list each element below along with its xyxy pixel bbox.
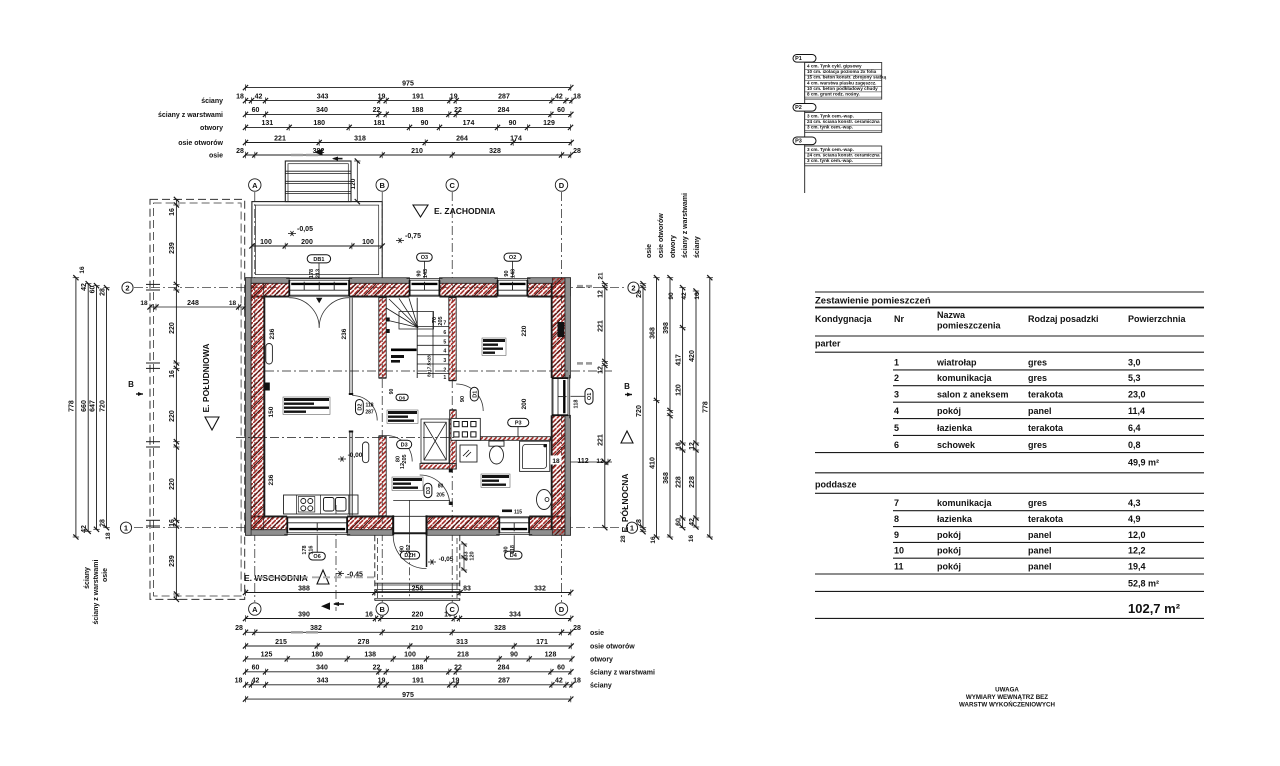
svg-text:16: 16 <box>675 442 682 450</box>
svg-text:parter: parter <box>815 339 841 349</box>
svg-text:28: 28 <box>573 625 581 632</box>
svg-text:B: B <box>379 181 385 190</box>
svg-text:239: 239 <box>169 555 176 567</box>
svg-text:284: 284 <box>498 665 510 672</box>
svg-text:WYMIARY WEWNĄTRZ BEZ: WYMIARY WEWNĄTRZ BEZ <box>966 694 1048 701</box>
svg-text:11,4: 11,4 <box>1128 406 1145 416</box>
svg-text:3,0: 3,0 <box>1128 357 1141 367</box>
svg-text:248: 248 <box>187 300 199 307</box>
svg-text:O2: O2 <box>509 255 516 261</box>
window/door pill labels <box>302 253 593 560</box>
svg-text:975: 975 <box>402 692 414 699</box>
svg-text:6: 6 <box>443 330 446 336</box>
svg-text:90: 90 <box>504 546 510 552</box>
svg-text:120: 120 <box>675 384 682 396</box>
svg-text:2: 2 <box>894 373 899 383</box>
svg-text:120: 120 <box>470 551 476 560</box>
svg-text:-0,05: -0,05 <box>297 226 313 233</box>
svg-text:P3: P3 <box>515 421 522 427</box>
svg-text:9: 9 <box>894 530 899 540</box>
left terrace dashed outline <box>140 197 247 602</box>
svg-text:205: 205 <box>436 493 445 499</box>
svg-text:C: C <box>449 181 455 190</box>
svg-text:6,4: 6,4 <box>1128 423 1141 433</box>
svg-text:90: 90 <box>460 396 466 402</box>
svg-text:komunikacja: komunikacja <box>937 373 993 383</box>
svg-text:10: 10 <box>894 546 904 556</box>
svg-text:660: 660 <box>81 400 88 412</box>
svg-text:19: 19 <box>452 678 460 685</box>
svg-text:D6: D6 <box>399 395 405 401</box>
svg-text:ściany: ściany <box>590 682 612 689</box>
svg-text:terakota: terakota <box>1028 390 1064 400</box>
svg-text:4: 4 <box>894 406 899 416</box>
svg-text:180: 180 <box>311 652 323 659</box>
schowek storage box <box>421 419 449 463</box>
svg-text:42: 42 <box>689 518 696 526</box>
svg-text:E. PÓŁNOCNA: E. PÓŁNOCNA <box>619 473 630 532</box>
svg-text:18: 18 <box>140 300 148 307</box>
svg-text:210: 210 <box>411 148 423 155</box>
svg-text:WARSTW WYKOŃCZENIOWYCH: WARSTW WYKOŃCZENIOWYCH <box>959 700 1055 708</box>
svg-text:E. ZACHODNIA: E. ZACHODNIA <box>434 206 495 216</box>
svg-text:4 cm. Tynk cykl. gipsowy: 4 cm. Tynk cykl. gipsowy <box>807 64 862 69</box>
svg-text:Nazwa: Nazwa <box>937 310 966 320</box>
svg-text:174: 174 <box>510 135 522 142</box>
svg-text:28: 28 <box>620 535 627 543</box>
svg-text:90: 90 <box>510 652 518 659</box>
svg-text:osie otworów: osie otworów <box>658 213 665 258</box>
svg-text:131: 131 <box>261 120 273 127</box>
svg-text:328: 328 <box>494 625 506 632</box>
svg-text:42: 42 <box>681 292 688 300</box>
svg-text:60: 60 <box>557 107 565 114</box>
svg-text:salon z aneksem: salon z aneksem <box>937 390 1009 400</box>
svg-text:398: 398 <box>663 322 670 334</box>
washbasin <box>537 490 552 510</box>
svg-text:-0,75: -0,75 <box>405 233 421 240</box>
svg-text:osie otworów: osie otworów <box>590 644 635 651</box>
svg-text:220: 220 <box>169 322 176 334</box>
balcony door DB1 swing arcs <box>289 298 319 328</box>
svg-text:221: 221 <box>598 320 605 332</box>
svg-text:125: 125 <box>261 652 273 659</box>
svg-text:12: 12 <box>598 366 605 374</box>
svg-text:P2: P2 <box>795 105 802 111</box>
svg-text:Nr: Nr <box>894 314 904 324</box>
svg-text:388: 388 <box>298 585 310 592</box>
svg-text:143: 143 <box>511 269 517 278</box>
svg-text:18: 18 <box>105 532 112 540</box>
svg-text:Powierzchnia: Powierzchnia <box>1128 314 1187 324</box>
svg-text:gres: gres <box>1028 373 1047 383</box>
svg-text:łazienka: łazienka <box>937 423 973 433</box>
svg-text:19: 19 <box>450 93 458 100</box>
svg-text:D: D <box>559 181 565 190</box>
bottom dimension block <box>235 585 655 702</box>
svg-text:28: 28 <box>235 625 243 632</box>
svg-text:80: 80 <box>438 484 444 490</box>
svg-text:90: 90 <box>509 120 517 127</box>
svg-text:83: 83 <box>463 585 471 592</box>
svg-text:128: 128 <box>545 652 557 659</box>
svg-text:220: 220 <box>169 478 176 490</box>
svg-text:49,9 m²: 49,9 m² <box>1128 458 1159 468</box>
svg-text:gres: gres <box>1028 440 1047 450</box>
svg-text:112: 112 <box>577 458 588 465</box>
svg-text:D2: D2 <box>357 404 363 411</box>
svg-text:16: 16 <box>169 519 176 527</box>
legend P1 P2 P3 <box>793 55 887 194</box>
svg-text:213: 213 <box>316 269 322 278</box>
radiators <box>266 344 273 365</box>
washing machine <box>460 445 477 462</box>
svg-text:19: 19 <box>378 678 386 685</box>
stairs <box>386 298 449 381</box>
svg-text:7: 7 <box>894 498 899 508</box>
svg-text:343: 343 <box>317 93 329 100</box>
west balcony / porch with steps <box>249 158 421 278</box>
svg-text:3: 3 <box>894 390 899 400</box>
svg-text:19: 19 <box>378 93 386 100</box>
svg-text:1: 1 <box>124 523 128 532</box>
svg-text:pokój: pokój <box>937 562 961 572</box>
svg-text:178: 178 <box>309 269 315 278</box>
svg-text:102,7 m²: 102,7 m² <box>1128 601 1181 616</box>
svg-text:28: 28 <box>236 148 244 155</box>
svg-text:E. POŁUDNIOWA: E. POŁUDNIOWA <box>201 344 211 413</box>
svg-text:16: 16 <box>650 536 657 544</box>
svg-text:A: A <box>252 181 258 190</box>
svg-text:60: 60 <box>675 518 682 526</box>
svg-text:ściany: ściany <box>694 236 701 258</box>
svg-text:osie: osie <box>646 244 653 258</box>
svg-text:21: 21 <box>597 272 604 280</box>
svg-text:210: 210 <box>411 625 423 632</box>
svg-text:panel: panel <box>1028 530 1052 540</box>
svg-text:115: 115 <box>514 510 522 516</box>
svg-text:komunikacja: komunikacja <box>937 498 993 508</box>
svg-text:191: 191 <box>412 678 424 685</box>
svg-text:ściany: ściany <box>84 567 91 589</box>
grid axes A-D, 1-2 <box>120 179 639 615</box>
svg-text:3: 3 <box>443 358 446 364</box>
svg-text:schowek: schowek <box>937 440 976 450</box>
shower <box>520 441 550 471</box>
svg-text:205: 205 <box>402 454 408 463</box>
svg-text:12: 12 <box>689 442 696 450</box>
svg-text:P3: P3 <box>795 139 802 145</box>
svg-text:647: 647 <box>89 400 96 412</box>
svg-text:171: 171 <box>536 639 548 646</box>
svg-text:wiatrołap: wiatrołap <box>936 357 977 367</box>
svg-text:90: 90 <box>417 270 423 276</box>
svg-text:E. WSCHODNIA: E. WSCHODNIA <box>244 573 308 583</box>
svg-text:B: B <box>128 380 134 389</box>
svg-text:osie: osie <box>590 630 604 637</box>
room labels (blurred text bars) <box>283 397 330 414</box>
svg-text:3 cm. tynk cem.-wap.: 3 cm. tynk cem.-wap. <box>807 158 853 163</box>
svg-text:60: 60 <box>252 665 260 672</box>
svg-text:28: 28 <box>573 148 581 155</box>
svg-text:228: 228 <box>689 476 696 488</box>
svg-text:ściany z warstwami: ściany z warstwami <box>93 559 100 624</box>
svg-text:Zestawienie pomieszczeń: Zestawienie pomieszczeń <box>815 296 931 307</box>
svg-text:420: 420 <box>689 350 696 362</box>
svg-text:188: 188 <box>412 107 424 114</box>
svg-text:15 cm. beton konstr. zbrojony: 15 cm. beton konstr. zbrojony siatką <box>807 75 887 80</box>
svg-text:12: 12 <box>598 290 605 298</box>
svg-text:22: 22 <box>373 665 381 672</box>
svg-text:221: 221 <box>274 135 286 142</box>
svg-text:poddasze: poddasze <box>815 480 857 490</box>
svg-text:18: 18 <box>552 458 560 465</box>
svg-text:778: 778 <box>69 400 76 412</box>
interior door arcs <box>456 384 483 411</box>
interior rotated dims <box>268 316 612 485</box>
svg-text:218: 218 <box>457 652 469 659</box>
svg-text:42: 42 <box>255 93 263 100</box>
svg-text:łazienka: łazienka <box>937 514 973 524</box>
svg-text:1: 1 <box>630 523 634 532</box>
svg-text:118: 118 <box>510 545 516 554</box>
svg-text:12,0: 12,0 <box>1128 530 1146 540</box>
svg-text:390: 390 <box>298 611 310 618</box>
svg-text:otwory: otwory <box>200 125 223 132</box>
svg-text:42: 42 <box>81 283 88 291</box>
svg-text:ściany z warstwami: ściany z warstwami <box>158 112 223 119</box>
svg-text:287: 287 <box>498 93 510 100</box>
rooms table Zestawienie pomieszczen <box>815 292 1204 618</box>
svg-text:B: B <box>379 605 385 614</box>
svg-text:340: 340 <box>316 665 328 672</box>
svg-text:16: 16 <box>688 535 695 543</box>
svg-text:panel: panel <box>1028 562 1052 572</box>
svg-text:Rodzaj posadzki: Rodzaj posadzki <box>1028 314 1099 324</box>
svg-text:239: 239 <box>169 242 176 254</box>
svg-text:720: 720 <box>636 405 643 417</box>
svg-text:4: 4 <box>443 349 446 355</box>
svg-text:138: 138 <box>364 652 376 659</box>
svg-text:52,8 m²: 52,8 m² <box>1128 579 1159 589</box>
svg-text:3 cm. Tynk cem.-wap.: 3 cm. Tynk cem.-wap. <box>807 114 854 119</box>
svg-text:60: 60 <box>557 665 565 672</box>
svg-text:236: 236 <box>341 328 348 339</box>
svg-text:D1: D1 <box>472 391 478 398</box>
svg-text:220: 220 <box>521 325 528 336</box>
svg-text:18: 18 <box>573 678 581 685</box>
svg-text:318: 318 <box>354 135 366 142</box>
entrance door DZH <box>392 515 427 568</box>
svg-text:200: 200 <box>301 239 313 246</box>
svg-text:90: 90 <box>400 546 406 552</box>
svg-text:42: 42 <box>555 93 563 100</box>
svg-text:4,9: 4,9 <box>1128 514 1141 524</box>
svg-text:100: 100 <box>404 652 416 659</box>
svg-text:22: 22 <box>454 665 462 672</box>
svg-text:pomieszczenia: pomieszczenia <box>937 321 1002 331</box>
svg-text:24 cm. ściana konstr. ceramicz: 24 cm. ściana konstr. ceramiczna <box>807 153 880 158</box>
svg-text:28: 28 <box>99 288 106 296</box>
svg-text:220: 220 <box>169 410 176 422</box>
svg-text:340: 340 <box>316 107 328 114</box>
svg-text:P1: P1 <box>795 56 802 62</box>
svg-text:pokój: pokój <box>937 406 961 416</box>
svg-text:osie otworów: osie otworów <box>178 140 223 147</box>
svg-text:90: 90 <box>668 292 675 300</box>
svg-text:terakota: terakota <box>1028 423 1064 433</box>
svg-text:16: 16 <box>365 611 373 618</box>
svg-text:191: 191 <box>412 93 424 100</box>
svg-text:terakota: terakota <box>1028 514 1064 524</box>
toilet <box>489 441 504 464</box>
svg-text:90: 90 <box>389 389 395 395</box>
svg-text:8: 8 <box>894 514 899 524</box>
svg-text:gres: gres <box>1028 357 1047 367</box>
svg-text:284: 284 <box>498 107 510 114</box>
svg-text:8x17,5x28: 8x17,5x28 <box>427 355 432 377</box>
svg-text:287: 287 <box>498 678 510 685</box>
svg-text:16: 16 <box>169 208 176 216</box>
svg-text:129: 129 <box>543 120 555 127</box>
top dimension block <box>158 80 581 160</box>
svg-text:264: 264 <box>456 135 468 142</box>
dining table with chairs <box>451 418 480 440</box>
svg-text:pokój: pokój <box>937 546 961 556</box>
svg-text:osie: osie <box>209 153 223 160</box>
svg-text:O1: O1 <box>587 393 593 400</box>
svg-text:3 cm. Tynk cem.-wap.: 3 cm. Tynk cem.-wap. <box>807 147 854 152</box>
svg-text:180: 180 <box>313 120 325 127</box>
svg-text:188: 188 <box>412 665 424 672</box>
svg-text:4 cm. warstwa piasku zagęszcz.: 4 cm. warstwa piasku zagęszcz. <box>807 80 876 85</box>
right dimension block <box>597 193 713 544</box>
svg-text:ściany z warstwami: ściany z warstwami <box>590 669 655 676</box>
svg-text:2: 2 <box>631 283 635 292</box>
svg-text:100: 100 <box>260 239 272 246</box>
svg-text:215: 215 <box>275 639 287 646</box>
svg-text:417: 417 <box>675 354 682 366</box>
svg-text:205: 205 <box>438 316 444 325</box>
svg-text:4,3: 4,3 <box>1128 498 1141 508</box>
svg-text:0,8: 0,8 <box>1128 440 1141 450</box>
svg-text:118: 118 <box>574 400 580 409</box>
svg-text:DB1: DB1 <box>313 257 324 263</box>
svg-text:228: 228 <box>675 476 682 488</box>
svg-text:24 cm. ściana konstr. ceramicz: 24 cm. ściana konstr. ceramiczna <box>807 119 880 124</box>
windows on top wall <box>284 279 532 535</box>
svg-text:332: 332 <box>534 585 546 592</box>
svg-text:16: 16 <box>694 292 701 300</box>
svg-text:334: 334 <box>509 611 521 618</box>
svg-text:8 cm. grunt rodz. nośny.: 8 cm. grunt rodz. nośny. <box>807 92 860 97</box>
svg-text:118: 118 <box>365 403 373 409</box>
svg-text:10 cm. izolacja pozioma 2x fol: 10 cm. izolacja pozioma 2x folia <box>807 69 877 74</box>
svg-text:ściany z warstwami: ściany z warstwami <box>682 193 689 258</box>
svg-text:174: 174 <box>463 120 475 127</box>
svg-text:6: 6 <box>894 440 899 450</box>
svg-text:410: 410 <box>649 457 656 469</box>
svg-text:343: 343 <box>317 678 329 685</box>
svg-text:368: 368 <box>663 472 670 484</box>
svg-text:C: C <box>449 605 455 614</box>
svg-text:panel: panel <box>1028 546 1052 556</box>
kitchen counter with stove and sink <box>284 495 359 514</box>
svg-text:D3: D3 <box>401 442 408 448</box>
svg-text:28: 28 <box>99 519 106 527</box>
svg-text:pokój: pokój <box>937 530 961 540</box>
svg-text:11: 11 <box>894 562 904 572</box>
svg-text:1: 1 <box>443 375 446 381</box>
svg-text:16: 16 <box>79 266 86 274</box>
svg-text:1: 1 <box>894 357 899 367</box>
svg-text:778: 778 <box>703 401 710 413</box>
entrance porch bottom <box>375 500 476 601</box>
svg-text:287: 287 <box>365 410 374 416</box>
svg-text:313: 313 <box>456 639 468 646</box>
svg-text:42: 42 <box>81 525 88 533</box>
svg-text:5: 5 <box>894 423 899 433</box>
interior walls <box>349 298 551 516</box>
svg-text:90: 90 <box>504 270 510 276</box>
chimney flue in right wall <box>558 322 565 337</box>
svg-text:221: 221 <box>598 434 605 446</box>
svg-text:10 cm. beton podkładowy chudy: 10 cm. beton podkładowy chudy <box>807 86 878 91</box>
svg-text:150: 150 <box>268 406 275 417</box>
svg-text:23,0: 23,0 <box>1128 390 1146 400</box>
svg-text:382: 382 <box>310 625 322 632</box>
svg-text:200: 200 <box>521 398 528 409</box>
svg-text:236: 236 <box>268 474 275 485</box>
svg-text:60: 60 <box>89 286 96 294</box>
left dimension block <box>69 266 112 624</box>
svg-text:975: 975 <box>402 80 414 87</box>
svg-text:18: 18 <box>236 93 244 100</box>
svg-text:278: 278 <box>358 639 370 646</box>
svg-text:42: 42 <box>252 678 260 685</box>
svg-text:-0,05: -0,05 <box>439 556 454 563</box>
svg-text:220: 220 <box>412 611 424 618</box>
svg-text:22: 22 <box>454 107 462 114</box>
svg-text:178: 178 <box>302 545 308 554</box>
aux axis lines <box>265 370 612 372</box>
svg-text:2: 2 <box>125 283 129 292</box>
svg-text:3 cm. tynk cem.-wap.: 3 cm. tynk cem.-wap. <box>807 125 853 130</box>
svg-text:328: 328 <box>489 148 501 155</box>
svg-text:gres: gres <box>1028 498 1047 508</box>
svg-text:116: 116 <box>309 546 315 555</box>
elevation labels <box>128 205 633 584</box>
svg-text:O6: O6 <box>313 554 320 560</box>
svg-text:12: 12 <box>596 458 604 465</box>
svg-text:80: 80 <box>396 456 402 462</box>
svg-text:181: 181 <box>373 120 385 127</box>
right window O1 <box>552 375 570 418</box>
svg-text:16: 16 <box>169 370 176 378</box>
svg-text:O3: O3 <box>421 255 428 261</box>
svg-text:236: 236 <box>269 328 276 339</box>
svg-text:otwory: otwory <box>590 656 613 663</box>
svg-text:18: 18 <box>235 678 243 685</box>
svg-text:D3: D3 <box>426 487 432 494</box>
svg-text:60: 60 <box>252 107 260 114</box>
svg-text:Kondygnacja: Kondygnacja <box>815 314 873 324</box>
svg-text:202: 202 <box>406 544 412 553</box>
note bottom right <box>959 687 1055 709</box>
svg-text:osie: osie <box>102 568 109 582</box>
svg-text:143: 143 <box>423 269 429 278</box>
svg-text:5: 5 <box>443 339 446 345</box>
